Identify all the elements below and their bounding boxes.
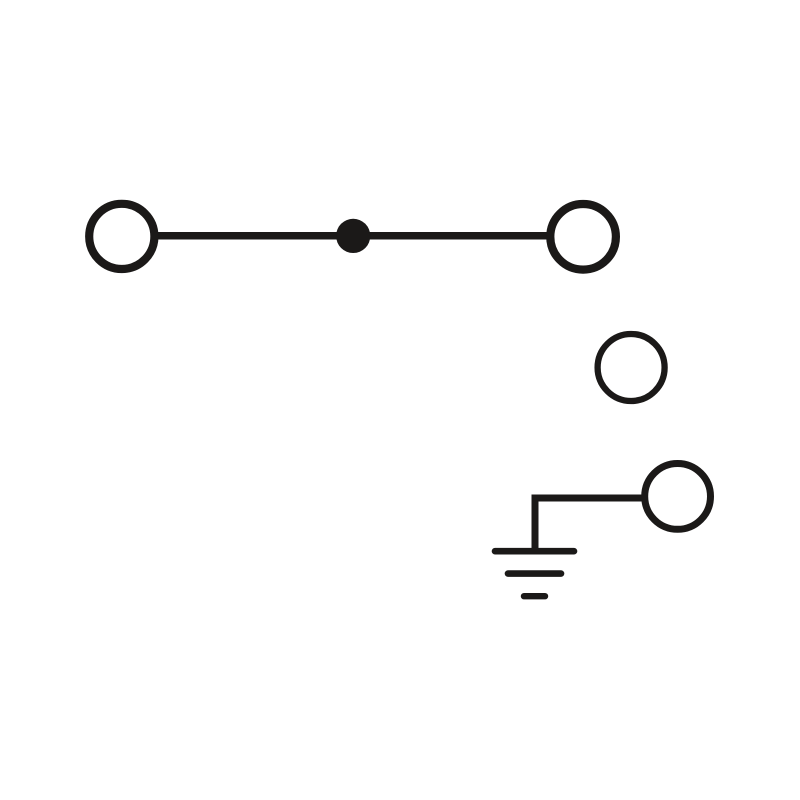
wire: horizontal conductor between terminal 1 and terminal 2 (155, 232, 548, 240)
terminal circle 4 (bottom right, PE terminal) (645, 464, 711, 530)
ground: top bar (495, 548, 574, 555)
wire: elbow from PE terminal down to ground (535, 498, 643, 549)
terminal circle 3 (middle right, unconnected) (598, 334, 665, 401)
terminal circle 1 (top left) (89, 204, 154, 269)
junction dot (center tap node) (336, 219, 370, 253)
ground: bottom bar (524, 593, 545, 599)
terminal circle 2 (top right) (550, 204, 616, 270)
ground: middle bar (508, 570, 561, 577)
